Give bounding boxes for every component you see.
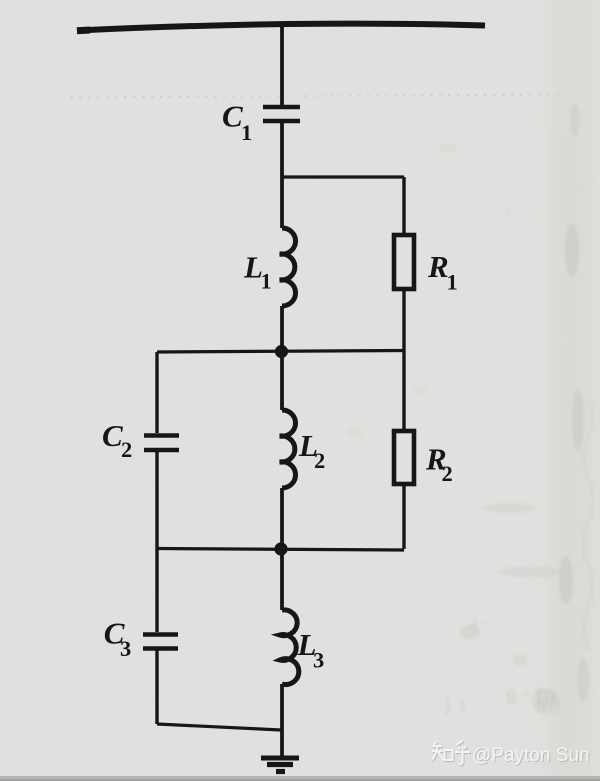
svg-text:1: 1 [241,120,252,145]
svg-text:1: 1 [261,269,272,294]
svg-text:: 7: : 7 [497,206,511,221]
svg-text:2: 2 [442,461,453,486]
svg-text:3: 3 [120,636,131,661]
svg-text:2: 2 [314,448,325,473]
svg-text:C: C [102,418,123,453]
svg-text:R: R [427,249,449,284]
svg-text:8 3: 8 3 [536,697,561,719]
svg-text:C: C [222,99,243,134]
svg-text:} 1: } 1 [443,695,468,717]
svg-text:4 ~: 4 ~ [470,616,489,632]
svg-text:1: 1 [447,270,458,295]
svg-text:3: 3 [313,648,324,673]
svg-text:2: 2 [121,437,132,462]
svg-text:@Payton Sun: @Payton Sun [472,745,590,766]
